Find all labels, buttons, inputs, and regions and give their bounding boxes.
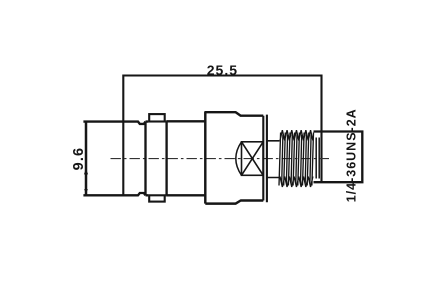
9.6 dim arrow mid: [84, 169, 88, 175]
top lug: [149, 114, 165, 121]
hex flat box with cross: [242, 142, 264, 176]
svg-text:9.6: 9.6: [71, 147, 87, 170]
bottom lug: [149, 195, 165, 201]
BNC body cylinder: [83, 122, 145, 124]
hex flat arc: [236, 142, 242, 176]
centerline: [111, 158, 330, 160]
bayonet ring: [146, 122, 167, 196]
hex right face double line: [263, 115, 267, 203]
threads: [279, 130, 314, 187]
hex body outline: [205, 112, 263, 203]
dimension 25.5 bracket: [123, 76, 321, 196]
svg-text:25.5: 25.5: [207, 62, 238, 78]
9.6 dim arrow bottom: [84, 189, 88, 195]
ring top/bottom edge: [146, 122, 167, 196]
svg-text:1/4-36UNS-2A: 1/4-36UNS-2A: [344, 108, 358, 202]
barrel: [167, 121, 206, 195]
end cap: [314, 132, 363, 183]
neck: [267, 141, 280, 178]
cap chamfer lines: [316, 138, 319, 179]
